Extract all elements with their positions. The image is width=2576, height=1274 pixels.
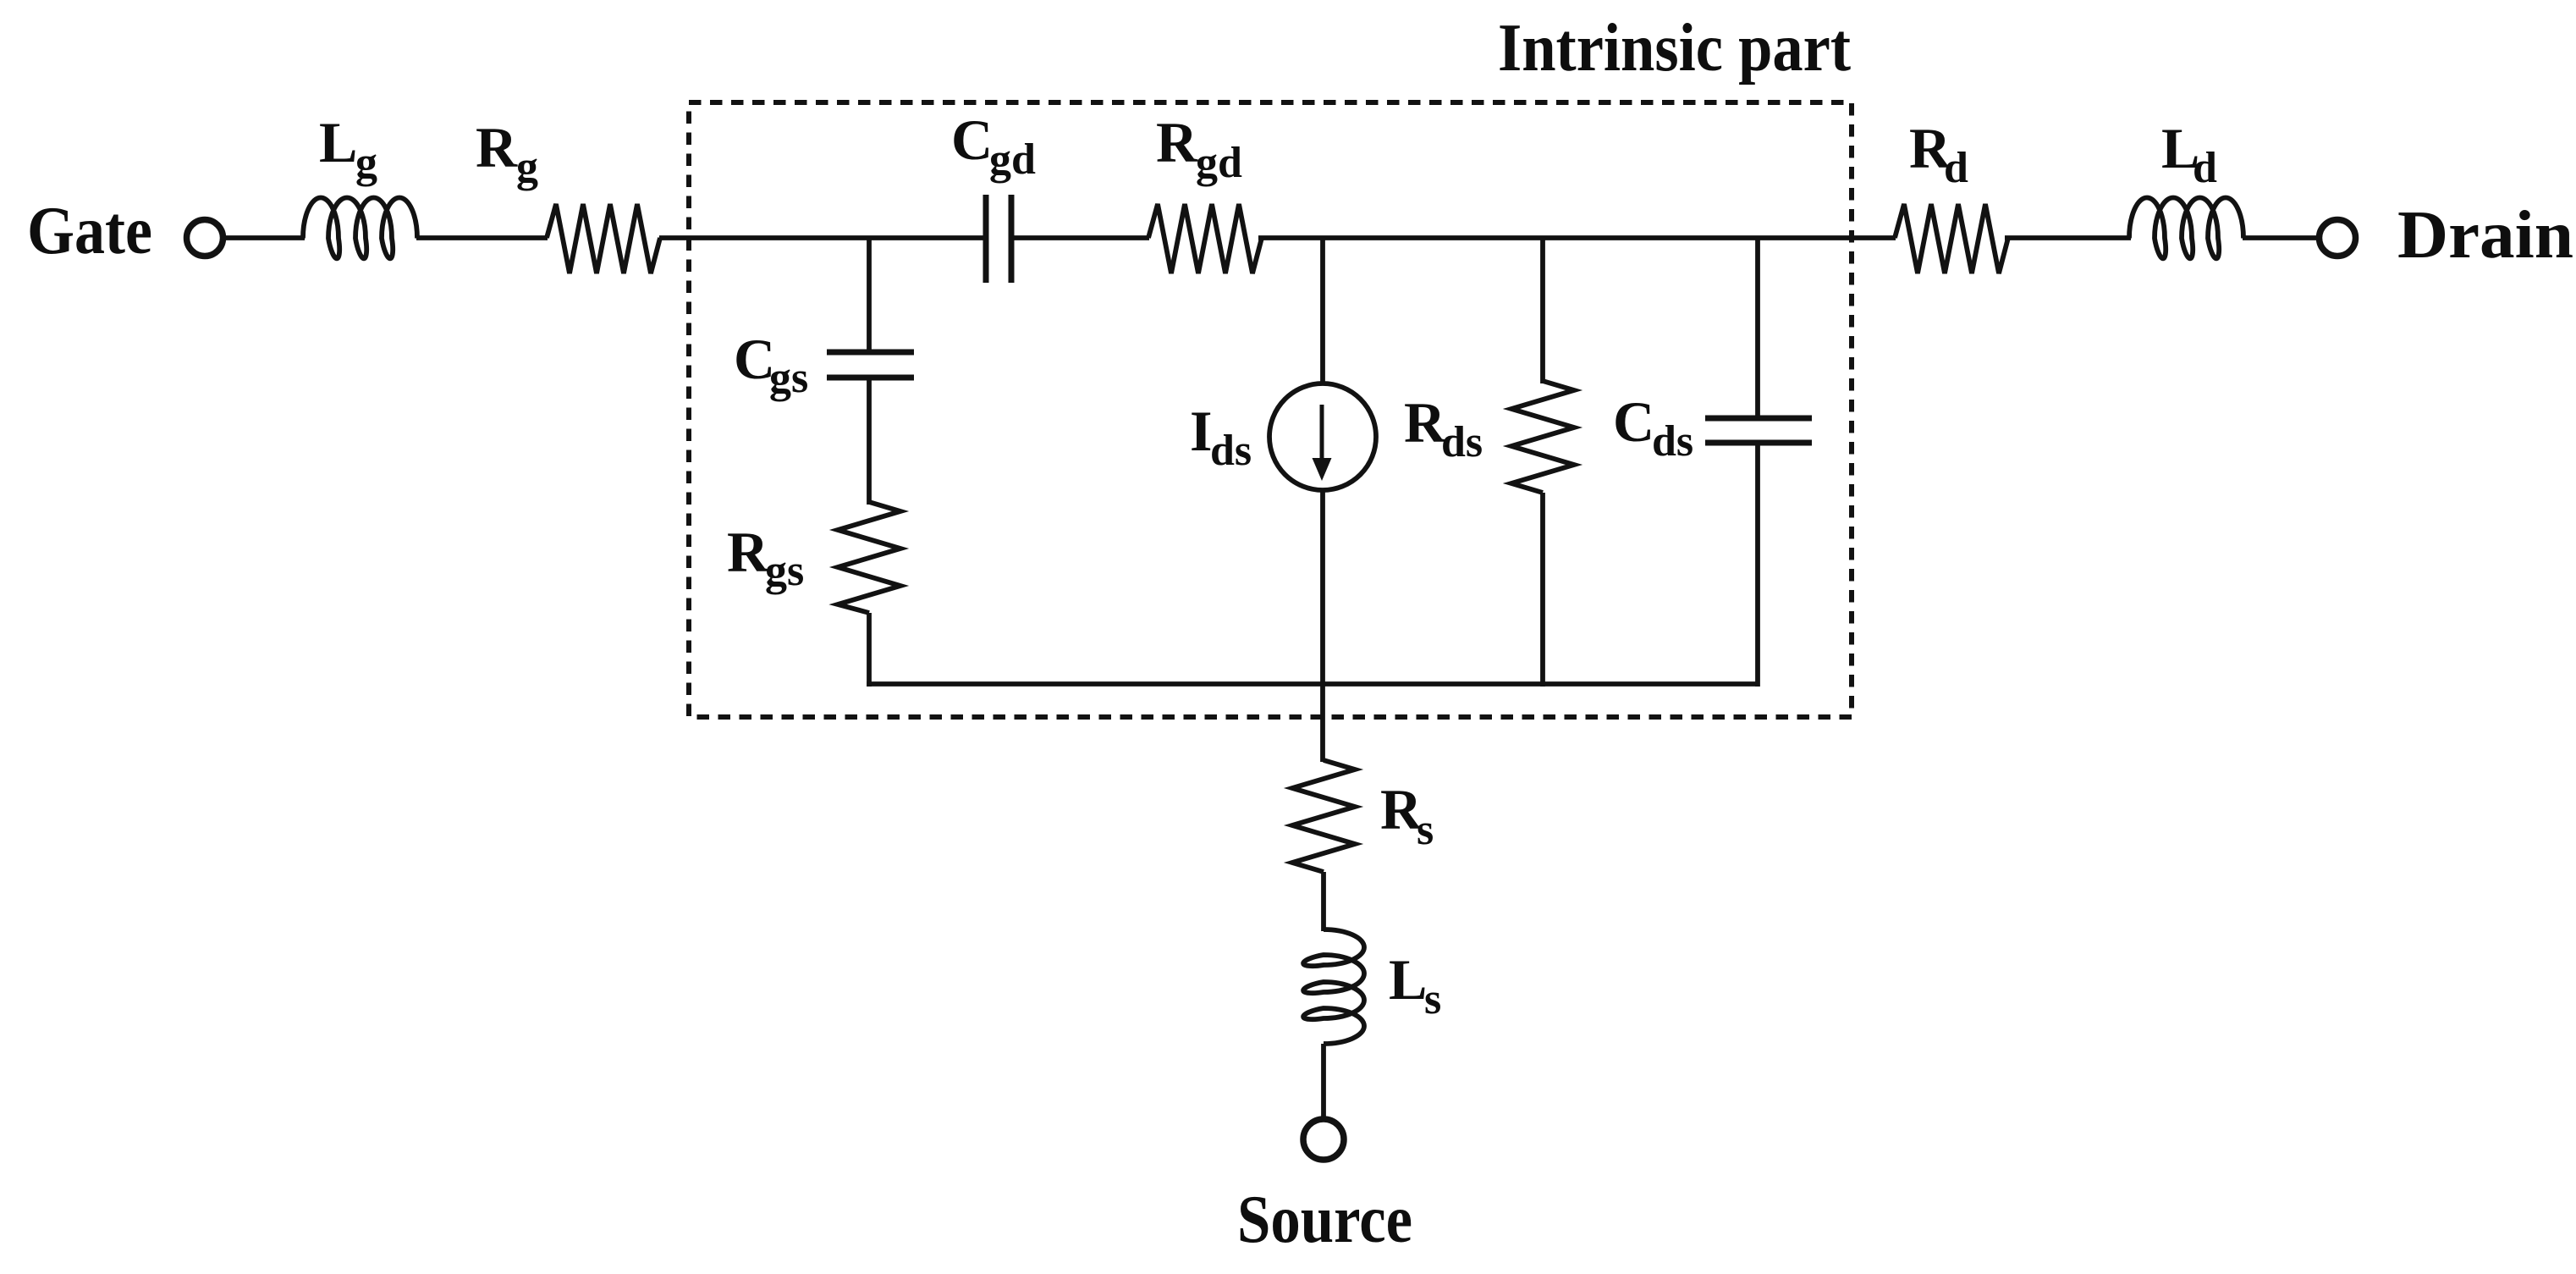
svg-text:R: R (476, 115, 518, 179)
svg-text:C: C (951, 108, 993, 172)
wire Rs to Ls (1321, 872, 1326, 931)
svg-text:d: d (1944, 144, 1968, 192)
wire node down to Cds (1755, 238, 1760, 418)
resistor Rgs (838, 502, 900, 613)
resistor Rds (1511, 381, 1574, 493)
wire Cds to bottom rail (1755, 443, 1760, 687)
svg-text:Drain: Drain (2397, 198, 2573, 273)
wire node down to Ids (1320, 238, 1325, 385)
wire Ls to Source terminal (1321, 1044, 1326, 1120)
wire Rd to Ld (2005, 235, 2131, 240)
wire Rds to bottom rail (1540, 493, 1545, 687)
inductor Ld (2129, 198, 2243, 259)
capacitor Cgd (983, 195, 989, 283)
svg-text:gd: gd (989, 135, 1036, 184)
resistor Rd (1895, 204, 2008, 273)
terminal Source (circle) (1303, 1119, 1344, 1160)
wire node down to Rds (1540, 238, 1545, 383)
capacitor Cds (1705, 416, 1812, 422)
wire Rg to Cgd through node A (659, 235, 987, 240)
wire Rgd to Rd across internal nodes (1258, 235, 1896, 240)
svg-text:R: R (727, 520, 769, 584)
terminal Gate (circle) (187, 220, 223, 256)
wire Ids to Rs through source node (1320, 488, 1325, 762)
svg-text:s: s (1417, 806, 1434, 854)
svg-text:gs: gs (769, 354, 808, 402)
capacitor Cgs (827, 350, 914, 356)
svg-text:ds: ds (1210, 427, 1252, 475)
resistor Rs (1292, 760, 1355, 872)
resistor Rg (547, 204, 660, 273)
svg-text:d: d (2193, 144, 2217, 192)
inductor Lg (303, 198, 417, 259)
svg-text:g: g (516, 143, 538, 191)
svg-text:C: C (1613, 389, 1654, 454)
svg-text:gs: gs (765, 547, 804, 595)
Ids arrow (1320, 405, 1324, 461)
svg-text:g: g (355, 139, 377, 187)
wire Cgs to Rgs (867, 378, 872, 505)
svg-text:Gate: Gate (27, 194, 152, 268)
terminal Drain (circle) (2320, 220, 2356, 256)
svg-text:I: I (1190, 399, 1212, 463)
wire Ld to Drain terminal (2243, 235, 2316, 240)
wire Rgs to bottom rail (867, 613, 872, 687)
wire gate to Lg (226, 235, 305, 240)
current source Ids (circle) (1269, 383, 1376, 490)
bottom rail wire (867, 681, 1758, 687)
wire node A down to Cgs (867, 238, 872, 353)
svg-text:ds: ds (1441, 418, 1483, 466)
svg-text:L: L (319, 110, 357, 174)
svg-text:ds: ds (1652, 417, 1693, 466)
resistor Rgd (1148, 204, 1262, 273)
inductor Ls (1303, 929, 1364, 1044)
svg-text:R: R (1404, 390, 1446, 455)
svg-text:R: R (1156, 110, 1198, 174)
svg-text:Source: Source (1237, 1183, 1412, 1257)
dashed box: Intrinsic part (689, 102, 1852, 717)
svg-text:s: s (1424, 975, 1441, 1023)
wire Lg to Rg (416, 235, 548, 240)
svg-text:gd: gd (1196, 139, 1242, 187)
wire Cgd to Rgd (1011, 235, 1149, 240)
svg-text:Intrinsic part: Intrinsic part (1498, 11, 1851, 85)
svg-text:L: L (1389, 947, 1427, 1012)
